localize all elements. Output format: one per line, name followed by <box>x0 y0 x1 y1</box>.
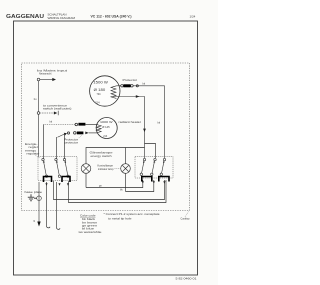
energy regulator switch S1 (dashed box) <box>38 157 77 181</box>
S1 contact 2 <box>55 158 61 177</box>
wire: mains drop <box>38 81 40 112</box>
wire: drop with hook 2 <box>57 182 61 229</box>
wire: H1 drop to bus A <box>85 173 87 187</box>
svg-text:1/24: 1/24 <box>190 15 196 19</box>
contact blade arrowheads S2 <box>143 161 145 163</box>
wire: mains drop to regulator <box>38 114 40 156</box>
wire: F2a to E2 <box>85 124 97 126</box>
svg-text:bk: bk <box>143 82 146 85</box>
bus C <box>54 180 165 200</box>
leader to H2 <box>115 167 121 169</box>
svg-text:* Connect P1-2 system acc. nam: * Connect P1-2 system acc. nameplate <box>104 212 161 216</box>
glow lamp H1 <box>81 164 91 174</box>
bus B (bk) <box>126 180 154 192</box>
leader to regulator <box>36 156 40 158</box>
contact blade arrowheads S1 <box>43 161 45 163</box>
wire: H2 drop to bus B <box>125 173 127 191</box>
ground symbol <box>28 194 37 201</box>
S1 connector block X1b <box>62 177 70 183</box>
S2 connector block X2b <box>159 177 169 182</box>
svg-text:SCHALTPLAN: SCHALTPLAN <box>48 13 67 17</box>
S1 contact 3 <box>63 158 69 177</box>
heater element E2 1000W <box>96 118 117 139</box>
svg-text:ws weiss/white: ws weiss/white <box>79 231 103 234</box>
svg-text:N: N <box>34 221 36 223</box>
S2 contact 3 <box>160 158 166 175</box>
svg-text:Netzanschl.: Netzanschl. <box>39 72 52 76</box>
arrowheads: S2 outputs <box>142 181 144 184</box>
svg-text:to metal tip hole: to metal tip hole <box>108 218 132 221</box>
svg-text:switch (wall point): switch (wall point) <box>43 107 72 110</box>
svg-text:bk: bk <box>158 122 161 125</box>
arrowheads: S1 outputs <box>45 183 47 186</box>
svg-text:214: 214 <box>95 101 100 105</box>
wire: jog to S2 middle <box>145 144 156 159</box>
heating coil of E1 <box>111 86 116 99</box>
wire: regulator riser B <box>56 137 58 159</box>
svg-text:bk: bk <box>120 189 123 192</box>
protector F1 <box>121 85 139 88</box>
bus D <box>69 180 167 203</box>
svg-text:indicator lamp: indicator lamp <box>98 168 114 171</box>
svg-text:WIRING DIAGRAM: WIRING DIAGRAM <box>48 16 76 20</box>
wire: E1 top to protector F1 <box>116 85 121 87</box>
svg-text:gn: gn <box>99 185 102 188</box>
arrowhead on riser <box>143 129 146 132</box>
svg-text:213: 213 <box>103 135 108 138</box>
arrowhead F2 to E2 <box>85 132 88 135</box>
svg-text:Cooktop: Cooktop <box>181 218 191 221</box>
arrow link to protector F2 <box>58 134 65 137</box>
selector switch S2 (dashed box) <box>135 157 173 179</box>
svg-text:704: 704 <box>97 93 102 96</box>
wire: F1 to right switch S2 <box>133 86 165 158</box>
svg-text:base plate: base plate <box>25 191 44 194</box>
wire: F2 to E2 <box>89 132 98 134</box>
drawing frame border <box>14 21 198 275</box>
svg-text:Ø 180: Ø 180 <box>94 88 106 92</box>
wire: regulator riser C <box>64 135 66 160</box>
arrowhead on E1 bottom wire <box>136 95 140 98</box>
wire: regulator to E2 upper (bk) <box>43 125 45 160</box>
fuse F2a <box>75 123 78 126</box>
svg-text:VC 112 - 602 USA (240 V.): VC 112 - 602 USA (240 V.) <box>91 14 133 18</box>
appliance outline (dashed enclosure) <box>22 63 190 211</box>
node: convenience outlet tap <box>37 111 58 115</box>
S1 connector block X1a <box>44 177 52 183</box>
svg-text:energy switch: energy switch <box>91 155 113 158</box>
S2 contact 2 <box>151 158 157 175</box>
heating coil of E2 <box>96 125 101 133</box>
svg-text:bk: bk <box>50 121 53 124</box>
protector F2 <box>74 132 77 135</box>
heater element E1 1500W <box>90 76 120 106</box>
wire: lamp bus <box>86 148 145 164</box>
svg-text:1500 W: 1500 W <box>93 80 108 84</box>
svg-text:radiant heater: radiant heater <box>119 120 142 124</box>
svg-text:GAGGENAU: GAGGENAU <box>6 14 44 20</box>
wire: drop with hook 1 <box>47 182 51 228</box>
svg-text:bu Mains input: bu Mains input <box>37 68 67 72</box>
bus A (gn) <box>86 180 143 188</box>
S2 contact 1 <box>140 158 146 175</box>
svg-text:regulator: regulator <box>27 153 40 156</box>
wire: E1 bottom to S2 <box>113 97 145 159</box>
wire: ground drop with arrow <box>38 182 40 223</box>
S2 connector block X2a <box>142 177 152 182</box>
ground terminal <box>37 196 42 201</box>
svg-text:bu: bu <box>34 98 37 101</box>
node: mains input terminal <box>37 78 52 81</box>
arrowhead convenience tap <box>54 112 57 115</box>
wire: H2 riser <box>125 148 127 164</box>
glow lamp H2 <box>121 164 131 174</box>
svg-text:protector: protector <box>65 142 79 145</box>
svg-text:Ø 145: Ø 145 <box>102 125 110 129</box>
S1 contact 1 <box>42 158 48 177</box>
arrowhead mains input <box>52 78 56 81</box>
svg-text:Protector: Protector <box>123 79 138 82</box>
svg-text:1000 W: 1000 W <box>100 120 113 124</box>
svg-text:5 82 0460 01: 5 82 0460 01 <box>176 276 198 280</box>
leader protector label <box>79 135 82 138</box>
